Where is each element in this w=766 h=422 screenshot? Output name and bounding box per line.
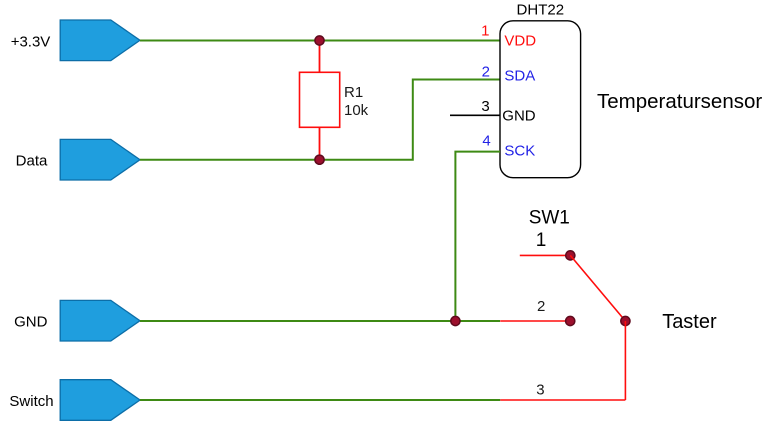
junction dot GND/SCK bbox=[451, 316, 460, 325]
svg-text:3: 3 bbox=[536, 382, 544, 399]
svg-text:10k: 10k bbox=[344, 102, 369, 119]
svg-text:SDA: SDA bbox=[504, 68, 535, 85]
svg-text:Temperatursensor: Temperatursensor bbox=[597, 90, 762, 113]
wire GND line bbox=[140, 320, 500, 322]
svg-text:4: 4 bbox=[482, 133, 490, 150]
switch blade (diagonal) bbox=[570, 255, 625, 321]
svg-text:+3.3V: +3.3V bbox=[11, 33, 51, 50]
resistor R1 bbox=[300, 72, 369, 127]
svg-text:VDD: VDD bbox=[504, 33, 536, 50]
junction dot on +3.3V line bbox=[315, 36, 324, 45]
switch pin 1 lead bbox=[520, 254, 571, 256]
wire Data to SDA bbox=[140, 80, 500, 160]
svg-text:Switch: Switch bbox=[9, 393, 53, 410]
switch pin 2 contact dot bbox=[566, 316, 575, 325]
svg-text:3: 3 bbox=[481, 98, 489, 115]
svg-text:Taster: Taster bbox=[662, 311, 717, 333]
svg-text:GND: GND bbox=[14, 314, 48, 331]
wire +3.3V to VDD bbox=[140, 40, 500, 42]
wire Switch line bbox=[140, 399, 500, 401]
svg-text:DHT22: DHT22 bbox=[517, 2, 565, 19]
node Data bbox=[16, 139, 140, 180]
svg-text:SW1: SW1 bbox=[529, 208, 570, 229]
switch SW1 bbox=[529, 208, 570, 229]
node GND bbox=[14, 300, 140, 341]
svg-text:2: 2 bbox=[537, 298, 545, 315]
svg-text:GND: GND bbox=[502, 108, 536, 125]
node +3.3V bbox=[11, 20, 140, 61]
svg-text:SCK: SCK bbox=[504, 143, 535, 160]
node Switch bbox=[9, 380, 140, 421]
switch pin 2 lead bbox=[500, 320, 570, 322]
switch pin 3 lead bbox=[500, 399, 625, 401]
pin 3 stub bbox=[450, 114, 500, 116]
wire resistor top stub bbox=[319, 41, 321, 73]
svg-text:R1: R1 bbox=[344, 84, 363, 101]
node GND2 bbox=[60, 300, 140, 341]
switch pin 1 contact dot bbox=[566, 251, 575, 260]
svg-text:Data: Data bbox=[16, 153, 48, 170]
svg-text:1: 1 bbox=[481, 23, 489, 40]
junction dot on Data line bbox=[315, 155, 324, 164]
wire resistor bottom stub bbox=[319, 127, 321, 159]
switch pole down wire bbox=[624, 321, 626, 400]
wire SCK route bbox=[455, 152, 500, 321]
IC U1 DHT22 bbox=[500, 2, 581, 178]
svg-text:2: 2 bbox=[482, 64, 490, 81]
svg-text:1: 1 bbox=[536, 230, 547, 251]
switch pole dot bbox=[621, 316, 630, 325]
